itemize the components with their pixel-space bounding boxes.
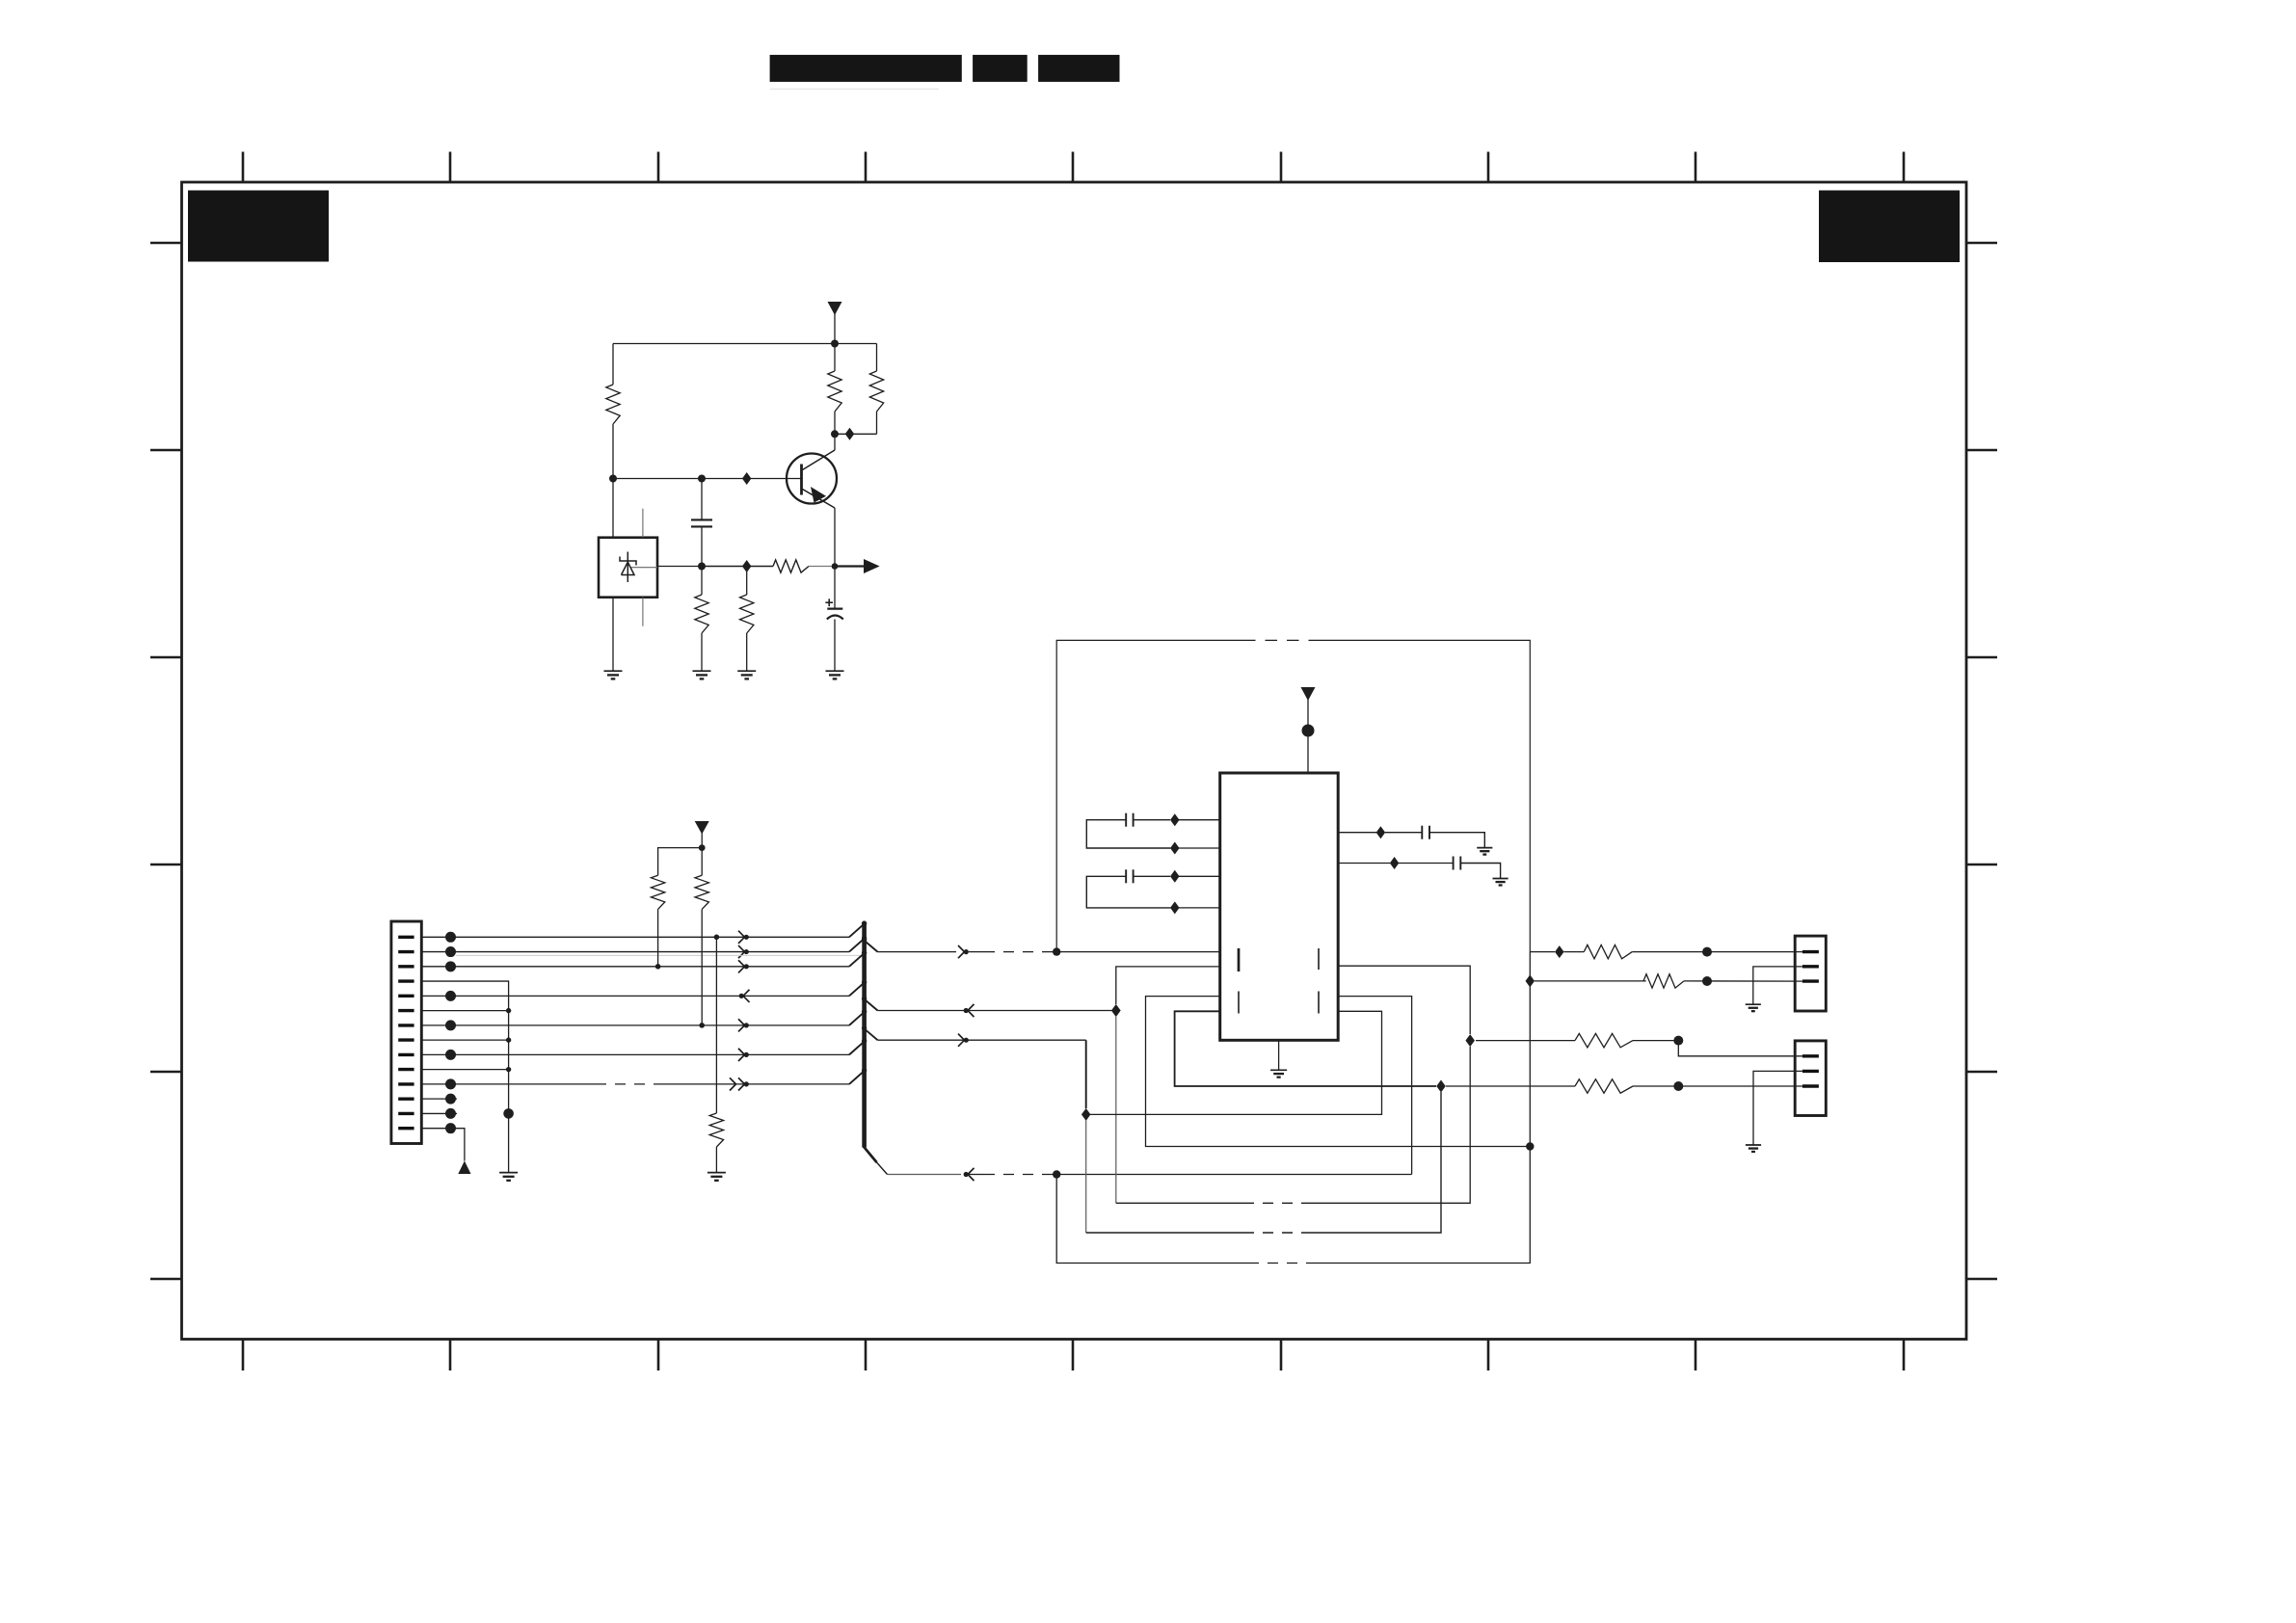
CN3 pin2 to ground <box>1753 967 1802 1004</box>
power supply symbol (top-left circuit) <box>828 302 842 315</box>
wire bus bottom row (dashed middle) <box>888 1174 962 1176</box>
connector CN1 body <box>391 921 421 1144</box>
loop wire IC left pin 1003 around to IC right pin 1002 <box>1116 967 1220 1004</box>
ground <box>1746 1144 1761 1146</box>
wire into box <box>612 479 614 538</box>
bus bottom bend <box>863 1146 876 1162</box>
wire row 14 to power return <box>421 1129 465 1161</box>
electrolytic capacitor C2 <box>834 567 836 609</box>
row to connector 4 pin 3 <box>1446 1085 1575 1087</box>
pull-down resistor R9 on row1 <box>715 937 717 1113</box>
transistor Q1 <box>787 454 837 504</box>
bus entry diagonal <box>849 922 866 937</box>
bus entry diagonal <box>849 952 866 967</box>
bus exit diagonal row B <box>863 998 877 1011</box>
loop vertical from bus row C <box>1085 1040 1087 1108</box>
faint residual line under title <box>770 88 939 90</box>
ground <box>737 670 756 672</box>
double chevron row 11 <box>730 1078 736 1084</box>
wire row 4 to ground bus <box>421 981 508 1173</box>
wire bus to loop row C <box>878 1039 1086 1041</box>
node output-emitter junction <box>832 563 839 570</box>
node <box>1702 976 1712 986</box>
ground <box>1477 847 1492 849</box>
wire supply rail <box>613 343 877 345</box>
test point diamond loop1 right <box>1465 1034 1475 1047</box>
corner label block top-left <box>188 191 329 262</box>
node base-capacitor junction <box>698 475 706 483</box>
bus entry diagonal <box>849 1070 866 1084</box>
resistor R7 pull-up row3 <box>651 875 664 909</box>
node output-cap junction <box>698 563 706 571</box>
bus entry diagonal <box>849 981 866 996</box>
IC internal pin stub 2 <box>1238 992 1240 1014</box>
title redaction bar 3 <box>1038 55 1119 82</box>
IC ground <box>1278 1040 1280 1070</box>
capacitor C3 loop pins 1-2 <box>1175 819 1220 821</box>
node supply rail junction <box>831 340 839 348</box>
emitter with arrow <box>803 490 836 509</box>
shield vertical lower section <box>1529 952 1531 1147</box>
wire rail to left resistor <box>658 848 703 876</box>
wire <box>701 832 703 848</box>
corner label block top-right <box>1819 191 1960 263</box>
test point diamond collector <box>845 428 855 440</box>
wire row 3 <box>421 966 849 968</box>
loop wire IC left pin 1034 down to row 1189 <box>1146 997 1531 1147</box>
test point diamond bold row <box>1436 1080 1446 1093</box>
ground <box>693 670 711 672</box>
gate line from box <box>631 567 657 569</box>
connector CN3 body <box>1795 936 1826 1011</box>
wire row 9 <box>421 1053 849 1055</box>
signal bus (thick line) <box>862 922 867 1148</box>
loop wire IC left pin 1049 (bold) to connector row <box>1175 1011 1436 1086</box>
resistor R2 (collector load) <box>834 344 836 372</box>
connector CN4 pins <box>1802 1056 1819 1086</box>
IC internal pin stub 1 <box>1238 948 1241 971</box>
wire collector to transistor <box>834 434 836 450</box>
ground for ground bus <box>499 1172 518 1174</box>
capacitor C5 right pin 1 <box>1338 832 1376 834</box>
wire base <box>613 478 802 480</box>
node <box>1673 1081 1683 1091</box>
power supply symbol above IC <box>1301 687 1316 701</box>
capacitor C6 right pin 2 <box>1338 863 1390 865</box>
test point diamond row B <box>1111 1004 1121 1017</box>
wire row 10 <box>421 1069 508 1071</box>
ground <box>826 670 844 672</box>
bus entry diagonal <box>849 1040 866 1054</box>
shield box around IC (dashed top) <box>1056 640 1243 951</box>
test point diamond output <box>742 560 752 572</box>
wire power to IC <box>1307 699 1309 773</box>
resistor R3 (parallel collector) <box>876 344 878 372</box>
power symbol (up triangle) <box>458 1161 470 1175</box>
CN4 pin2 to ground <box>1753 1071 1802 1145</box>
row to connector 3 pin 1 <box>1530 951 1555 953</box>
wire row 7 <box>421 1024 849 1026</box>
loop wire IC right pin 1034 down to bottom row <box>1338 997 1411 1175</box>
wire row 6 <box>421 1010 508 1012</box>
node base-left junction <box>609 475 617 483</box>
wire output row <box>657 566 702 568</box>
resistor R4 (output series) <box>773 560 809 572</box>
test point diamond base <box>742 472 752 485</box>
frame tick marks <box>150 152 1997 1371</box>
capacitor C4 loop pins 3-4 <box>1175 875 1220 877</box>
resistor R6 <box>746 567 748 596</box>
bus entry diagonal <box>849 937 866 951</box>
row to connector 4 pin 1 <box>1476 1040 1575 1042</box>
power supply symbol above pull-ups <box>695 821 709 835</box>
connector CN1 pins <box>398 937 414 1128</box>
bus exit diagonal row A <box>863 940 877 952</box>
outermost loop bottom <box>1056 1175 1248 1264</box>
wire <box>834 313 836 344</box>
connector CN3 pins <box>1802 952 1819 982</box>
title redaction bar 1 <box>770 55 962 82</box>
ground <box>604 670 623 672</box>
regulator box DZ1 <box>599 538 657 598</box>
zener diode symbol inside box <box>627 552 628 583</box>
test point diamond loop1 left <box>1111 1004 1121 1017</box>
wire collector node <box>835 433 877 435</box>
ground <box>1493 878 1508 880</box>
row to connector 3 pin 3 <box>1526 974 1535 987</box>
wire row 1 <box>421 936 849 938</box>
node <box>1673 1036 1683 1046</box>
node collector junction <box>831 430 839 438</box>
IC U1 body <box>1220 773 1339 1040</box>
node <box>1702 947 1712 957</box>
IC internal pin stub 3 <box>1318 948 1320 970</box>
ground <box>707 1172 726 1174</box>
IC internal pin stub 4 <box>1318 992 1320 1014</box>
node power blob <box>1302 725 1315 737</box>
wire bus to IC row A (dashed middle) <box>878 951 957 953</box>
test point diamond row 1156 <box>1081 1108 1091 1121</box>
drawing frame border <box>182 182 1967 1340</box>
resistor R5 <box>701 567 703 596</box>
loop wire IC right pin 1049 down to row 1156 <box>1090 1011 1382 1114</box>
resistor R8 pull-up row7 <box>701 848 703 876</box>
node bottom row junction <box>1053 1170 1060 1178</box>
node on ground bus at row 13 <box>503 1108 514 1119</box>
capacitor C1 <box>701 479 703 520</box>
ground <box>1746 1003 1761 1005</box>
wire box to ground <box>612 598 614 672</box>
wire row 12 stub <box>421 1098 457 1100</box>
output arrow <box>864 559 880 573</box>
node at shield vertical <box>1526 1142 1534 1150</box>
resistor R1 (left bias) <box>612 344 614 386</box>
connector CN4 body <box>1795 1041 1826 1116</box>
wire row 11 (partly dashed) <box>421 1083 596 1085</box>
wire bus to loop row B <box>878 1010 1116 1012</box>
bus entry diagonal <box>849 1011 866 1025</box>
bus exit diagonal row C <box>863 1027 877 1040</box>
wire row 5 <box>421 995 849 997</box>
wire row 8 <box>421 1039 508 1041</box>
node pull-up rail <box>699 844 706 851</box>
wire row 13 stub <box>421 1112 457 1114</box>
wire row 2 <box>421 951 849 953</box>
title redaction bar 2 <box>973 55 1028 82</box>
faint printed line under row 2 <box>456 954 860 956</box>
crystal electrode lines (gray) <box>642 509 644 538</box>
node outer-box junction <box>1053 947 1060 955</box>
